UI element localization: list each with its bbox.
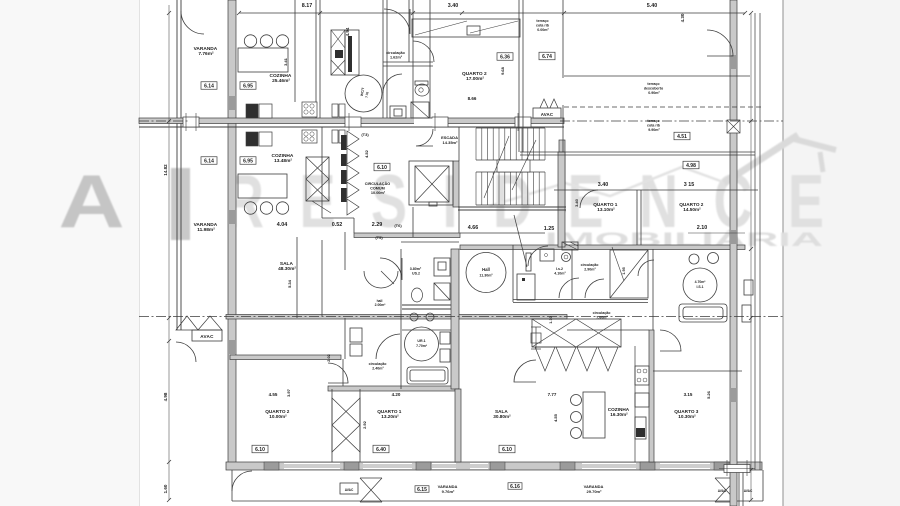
wall circulation bottom <box>354 233 460 238</box>
door wc upper <box>383 74 402 93</box>
svg-text:3.15: 3.15 <box>684 392 693 397</box>
watermark rooftop logo outline <box>490 167 726 206</box>
wall corridor jog <box>342 359 344 386</box>
closet east wall <box>359 389 361 462</box>
door varanda top left <box>181 11 204 34</box>
closet corridor <box>610 250 648 298</box>
shaft x-box center <box>306 157 329 201</box>
svg-text:4.98: 4.98 <box>686 163 696 169</box>
wall right varanda inner 2 <box>742 470 744 506</box>
varanda hatch triangles left <box>360 478 371 502</box>
bidet right bath <box>689 254 699 264</box>
closet triangles circulation <box>347 131 359 147</box>
wc circle upper <box>345 75 382 112</box>
toilet upper wc <box>415 84 429 96</box>
boxed dim 6.10 circ <box>374 163 390 171</box>
varanda left edge <box>231 470 233 501</box>
svg-text:8.66: 8.66 <box>468 96 477 101</box>
svg-text:3.97: 3.97 <box>286 388 291 397</box>
boxed dim 6.40 q1 <box>373 445 389 453</box>
watermark word RESIDENCE <box>225 159 824 243</box>
door gap escada <box>414 119 433 127</box>
wall above lower bedrooms <box>328 386 455 391</box>
wall top of right quartos <box>554 189 758 191</box>
wall wc east <box>412 0 414 118</box>
svg-text:14.82: 14.82 <box>163 164 168 176</box>
stair rail 2 <box>476 171 545 173</box>
us2 toilet <box>412 288 423 302</box>
wardrobe handle box <box>467 26 480 35</box>
wall kitchen top <box>567 329 649 331</box>
stair edge bottom <box>476 204 545 206</box>
kitchen counter lower <box>238 174 287 198</box>
bathtub ur1 <box>407 367 448 384</box>
wall right apartment west <box>558 152 565 247</box>
elevator door mark <box>429 202 437 206</box>
svg-text:2.10: 2.10 <box>697 225 708 231</box>
wall bathroom column east <box>451 249 459 389</box>
svg-text:4.55: 4.55 <box>269 392 278 397</box>
joint marker band 3 <box>515 117 531 127</box>
wall central horizontal upper <box>139 118 564 124</box>
door varanda bottom left <box>232 471 252 491</box>
ur1 shaft 1 <box>440 332 450 344</box>
door quarto1 right apt <box>528 246 548 266</box>
svg-text:5.40: 5.40 <box>647 3 658 9</box>
svg-text:AVAC: AVAC <box>541 112 554 117</box>
varanda bottom edge <box>232 500 763 502</box>
wall ur1 north <box>402 329 451 331</box>
svg-text:ESCADA 14.35m²: ESCADA 14.35m² <box>441 135 459 145</box>
svg-text:AVAC: AVAC <box>345 488 354 492</box>
svg-text:6.95: 6.95 <box>243 159 253 165</box>
stair arrow down <box>512 140 536 190</box>
svg-text:UR.1: UR.1 <box>417 339 425 343</box>
svg-text:5.34: 5.34 <box>287 279 292 288</box>
door quarto3 <box>660 330 681 351</box>
wall between right quartos <box>636 190 638 245</box>
door jamb is2 <box>526 253 531 271</box>
svg-text:6.10: 6.10 <box>377 165 387 171</box>
door us2 <box>380 258 402 280</box>
svg-text:AVAC: AVAC <box>718 489 727 493</box>
shaft box right 1 <box>744 280 753 295</box>
toilet tank upper <box>415 81 428 85</box>
door avac left <box>176 342 196 362</box>
svg-text:3.41: 3.41 <box>283 57 288 66</box>
terrace dashed boundary <box>564 106 762 108</box>
svg-text:7.77: 7.77 <box>548 392 557 397</box>
wall outer balcony east 2 <box>759 13 761 470</box>
entry diagonal <box>514 215 527 267</box>
stair landing rail <box>497 160 530 172</box>
ur1 big circle <box>405 327 439 361</box>
closet west wall <box>331 389 333 462</box>
svg-text:1.95: 1.95 <box>622 267 626 274</box>
wall terrace west <box>562 0 564 78</box>
wall vestibule east <box>344 232 346 270</box>
kitchen oven <box>635 417 646 439</box>
wall bottom main <box>226 462 762 470</box>
kitchen sink bowl lower <box>244 202 256 214</box>
wall bathroom column west <box>400 249 402 389</box>
left gray margin strip <box>0 0 139 506</box>
small box upper 2 <box>339 104 345 117</box>
hob upper <box>302 102 317 117</box>
boxed dim 6.10 sala <box>499 445 515 453</box>
wall right bath west <box>652 249 654 330</box>
svg-text:COZINHA 13.48m²: COZINHA 13.48m² <box>271 153 294 164</box>
boxed dim 6.74 <box>539 52 555 60</box>
svg-text:4.70m²: 4.70m² <box>695 280 707 284</box>
svg-text:terraço cota rib 0.00m²: terraço cota rib 0.00m² <box>536 19 550 32</box>
svg-text:4.04: 4.04 <box>277 222 288 228</box>
stair arrow up <box>484 136 509 198</box>
avac triangles left <box>176 316 198 330</box>
fridge cabinet upper <box>345 30 359 75</box>
right gray margin strip <box>783 0 900 506</box>
wall sala bath separator <box>344 318 346 359</box>
kitchen counter upper <box>238 48 288 72</box>
wall quarto1 sala <box>455 389 461 462</box>
svg-text:VARANDA 11.98m²: VARANDA 11.98m² <box>194 222 219 233</box>
boxed dim 6.10 q2 <box>252 445 268 453</box>
svg-text:6.74: 6.74 <box>542 54 552 60</box>
laundry box 1 <box>350 328 362 342</box>
wall is2 west <box>512 245 514 302</box>
axis centerline horizontal <box>139 316 783 318</box>
svg-text:(T6): (T6) <box>394 223 402 228</box>
svg-text:3.40: 3.40 <box>598 182 609 188</box>
dimension line right <box>750 13 752 500</box>
boxed dim 6.16 varanda <box>508 483 522 490</box>
axis upper right <box>560 120 783 122</box>
svg-text:3.40: 3.40 <box>448 3 459 9</box>
svg-text:6.16: 6.16 <box>510 484 520 490</box>
small box lower 2 <box>339 130 345 143</box>
kitchen counter triangles <box>535 347 555 371</box>
wall sala column line <box>321 240 323 316</box>
svg-text:6.14: 6.14 <box>204 159 214 165</box>
joint marker band 1 <box>183 117 199 127</box>
elevator car <box>415 166 449 202</box>
wall circulation inner bottom <box>322 217 354 219</box>
svg-text:2.29: 2.29 <box>372 222 383 228</box>
kitchen counter east line <box>634 346 636 462</box>
dim line entry <box>460 232 545 234</box>
varanda hatch triangles right <box>715 478 726 502</box>
wall right outer varanda extension <box>730 470 737 506</box>
svg-text:4.98: 4.98 <box>163 392 168 401</box>
wall top of quarto3 <box>653 370 742 372</box>
wall is2 south <box>513 299 648 301</box>
staircase treads lower flight <box>475 172 477 205</box>
svg-text:2.92: 2.92 <box>362 420 367 429</box>
island stool <box>571 412 582 423</box>
svg-text:4.20: 4.20 <box>392 392 401 397</box>
svg-text:3.40: 3.40 <box>574 198 579 207</box>
closet triangles lower <box>332 398 360 452</box>
boxed dim 4.98 <box>683 161 699 169</box>
wall sala column line 2 <box>296 237 298 318</box>
boxed dim 6.95 mid <box>240 157 256 165</box>
boxed dim 6.14 mid <box>201 157 217 165</box>
wall right varanda inner 1 <box>738 470 740 506</box>
axis upper left <box>139 120 190 122</box>
svg-text:8.17: 8.17 <box>302 3 313 9</box>
ur1 shaft 2 <box>440 349 450 362</box>
toilet circle right bath <box>683 268 717 302</box>
wall corridor north <box>230 355 341 360</box>
svg-text:3 15: 3 15 <box>684 182 695 188</box>
wall main left vertical <box>228 0 236 467</box>
entry door leaf <box>381 271 394 284</box>
wall elevator stair separator <box>453 161 459 207</box>
svg-text:4.55: 4.55 <box>553 413 558 422</box>
svg-text:1.10: 1.10 <box>549 316 553 323</box>
appliance upper 2 <box>259 104 272 118</box>
svg-text:Hall: Hall <box>482 267 490 272</box>
door corridor 1 <box>559 278 579 298</box>
wall stair south <box>458 206 566 208</box>
svg-text:0.52: 0.52 <box>332 222 343 228</box>
wall kitchen inner <box>294 0 296 102</box>
door hall to quartos <box>514 360 536 382</box>
wall kitchen quarto3 <box>649 330 654 462</box>
joint marker band 2 <box>432 117 448 127</box>
us2 sink cabinet <box>434 258 450 276</box>
wall central lower edge <box>139 126 564 128</box>
door sala corridor <box>376 334 400 359</box>
kitchen sink bowl lower <box>260 202 272 214</box>
shaft diagonal lower <box>312 201 331 213</box>
vent triangles center <box>539 99 559 110</box>
svg-text:SALA 30.80m²: SALA 30.80m² <box>493 409 511 419</box>
wall us2 south 1 <box>402 304 451 306</box>
svg-text:11.30m²: 11.30m² <box>479 274 493 278</box>
wall wc top <box>383 61 433 63</box>
boxed dim 4.51 <box>674 132 690 140</box>
wall left outer varanda <box>176 0 178 330</box>
boxed dim 6.15 varanda <box>415 486 429 493</box>
wall quarto2 east 1 <box>518 0 520 152</box>
kitchen sink bowl <box>244 35 256 47</box>
shaft box right 2 <box>742 305 751 322</box>
svg-text:terraço cota rib 9.90m²: terraço cota rib 9.90m² <box>647 119 661 132</box>
avac box left <box>192 330 222 341</box>
svg-text:4.30: 4.30 <box>680 13 685 22</box>
svg-text:9.68: 9.68 <box>500 66 505 75</box>
pantry cells upper <box>331 30 345 75</box>
wall circulation west 2 <box>386 0 388 118</box>
door top circulation <box>384 9 410 34</box>
svg-text:6.14: 6.14 <box>204 84 214 90</box>
svg-text:5.26: 5.26 <box>706 390 711 399</box>
kitchen sink lower apt <box>635 393 649 407</box>
sink upper wc <box>390 106 406 118</box>
svg-text:6.95: 6.95 <box>243 84 253 90</box>
wall circulation inner west <box>321 127 323 218</box>
wall terrace split <box>564 75 750 77</box>
varanda right edge <box>762 470 764 501</box>
dimension bar symbol <box>535 327 537 349</box>
boxed dim 6.95 upper <box>240 82 256 90</box>
small box lower 1 <box>332 130 338 143</box>
entry hatched box <box>562 242 578 250</box>
svg-text:SALA 48.30m²: SALA 48.30m² <box>278 261 296 272</box>
wall circulation west 1 <box>382 0 384 118</box>
dimension line left <box>168 5 170 500</box>
wall us2 north <box>401 241 459 243</box>
watermark bar I <box>171 168 190 240</box>
svg-text:(T5): (T5) <box>375 235 383 240</box>
elevator shaft <box>409 161 453 205</box>
wall right wing horizontal <box>460 245 745 250</box>
joint marker bottom right <box>724 465 750 473</box>
wall right of stair <box>559 140 565 212</box>
svg-text:(T3): (T3) <box>361 132 369 137</box>
appliance lower 2 <box>259 132 272 146</box>
svg-text:4.52: 4.52 <box>364 149 369 158</box>
is2 toilet <box>562 253 571 262</box>
svg-text:6.15: 6.15 <box>417 487 427 493</box>
wall joint marker <box>727 120 740 133</box>
stair rail 1 <box>476 159 545 161</box>
appliance dark upper <box>246 104 258 118</box>
boxed dim 6.14 upper <box>201 82 217 90</box>
kitchen sink bowl lower <box>276 202 288 214</box>
wall right outer <box>730 0 737 470</box>
svg-text:1.25: 1.25 <box>544 226 555 232</box>
wall is2 east <box>571 249 573 299</box>
joint marker band kitchen <box>345 117 361 127</box>
appliance dark lower <box>246 132 258 146</box>
us2 shower <box>434 283 450 300</box>
small box upper 1 <box>332 104 338 117</box>
staircase treads upper flight <box>475 128 477 160</box>
laundry box 2 <box>350 344 362 356</box>
door quarto1 top <box>580 190 598 208</box>
dimension line top <box>239 12 745 14</box>
wall quarto2 west upper <box>429 0 431 118</box>
shaft room corridor <box>517 274 535 300</box>
svg-text:1.60: 1.60 <box>163 484 168 493</box>
svg-text:6.10: 6.10 <box>255 447 265 453</box>
svg-text:6.40: 6.40 <box>376 447 386 453</box>
wall kitchen east 2 <box>319 0 321 118</box>
svg-text:I.S.1: I.S.1 <box>697 285 704 289</box>
avac box varanda <box>340 483 358 494</box>
svg-text:6.10: 6.10 <box>502 447 512 453</box>
wall lower apartment top <box>226 315 567 320</box>
door corridor 2 <box>585 279 604 298</box>
wall outer balcony east 1 <box>754 13 756 470</box>
door terrace right <box>707 30 733 56</box>
wardrobe quarto2 upper <box>412 19 520 37</box>
svg-text:6.36: 6.36 <box>500 55 510 61</box>
entry door swing <box>364 271 398 288</box>
wall entry east <box>412 207 414 237</box>
bathtub right <box>679 304 727 322</box>
kitchen hob lower apt <box>635 366 649 385</box>
wall kitchen east 1 <box>315 0 317 118</box>
svg-text:AVAC: AVAC <box>744 489 753 493</box>
kitchen counter x-hatch <box>532 319 621 347</box>
svg-text:7.70m²: 7.70m² <box>416 344 428 348</box>
hall circle <box>466 253 506 293</box>
svg-text:4.51: 4.51 <box>677 134 687 140</box>
dim line 2.10 <box>688 232 745 234</box>
door escada <box>416 129 433 146</box>
svg-text:4.66: 4.66 <box>468 225 479 231</box>
svg-text:VARANDA 29.70m²: VARANDA 29.70m² <box>584 484 605 494</box>
svg-text:4.94: 4.94 <box>345 27 350 36</box>
island stool <box>571 395 582 406</box>
door right bath <box>638 260 654 276</box>
kitchen island <box>583 392 605 438</box>
is2 sink box <box>540 249 554 261</box>
wall right wing upper <box>520 151 755 153</box>
svg-text:A: A <box>59 159 125 243</box>
wall wc west <box>408 0 410 62</box>
shower upper wc <box>411 102 429 118</box>
island stool <box>571 428 582 439</box>
wall quarto2 east 2 <box>522 0 524 152</box>
svg-text:2.02: 2.02 <box>327 354 331 361</box>
ur1 tap 2 <box>426 313 434 321</box>
closet bars circulation <box>341 135 347 150</box>
boxed dim 6.36 <box>497 53 513 61</box>
wall stair west upper <box>458 127 460 161</box>
svg-text:COZINHA 25.46m²: COZINHA 25.46m² <box>269 73 292 84</box>
ur1 tap 1 <box>410 313 418 321</box>
hob lower <box>302 130 317 143</box>
door quarto2 lower <box>328 363 348 383</box>
svg-text:COZINHA 16.30m²: COZINHA 16.30m² <box>608 407 631 417</box>
kitchen sink bowl <box>260 35 272 47</box>
svg-text:AVAC: AVAC <box>200 334 214 339</box>
sink right bath <box>708 253 719 264</box>
stair edge top <box>476 127 545 129</box>
door quarto2 upper <box>413 41 434 62</box>
avac box center <box>533 108 561 118</box>
kitchen sink bowl <box>276 35 288 47</box>
